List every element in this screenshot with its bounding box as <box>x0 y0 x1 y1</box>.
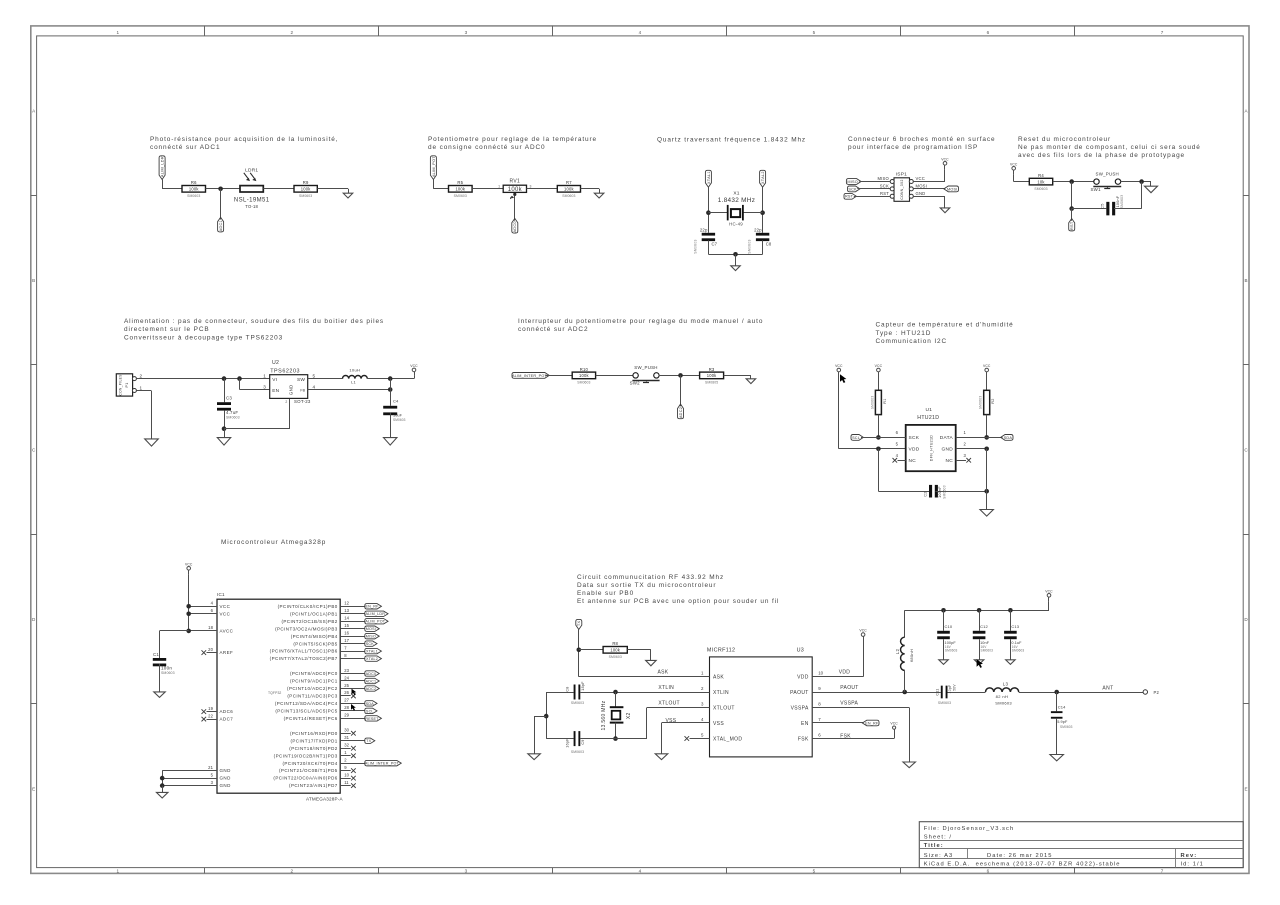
svg-text:GND: GND <box>941 447 953 453</box>
svg-text:VCC: VCC <box>220 611 231 616</box>
svg-text:(PCINT1/OC1A)PB1: (PCINT1/OC1A)PB1 <box>290 611 338 616</box>
svg-text:SCK: SCK <box>909 435 920 441</box>
svg-text:30: 30 <box>344 728 349 733</box>
svg-text:Photo-résistance pour acquisit: Photo-résistance pour acquisition de la … <box>150 136 338 143</box>
svg-text:16pF: 16pF <box>565 738 569 748</box>
svg-text:6: 6 <box>987 30 990 35</box>
svg-text:P1: P1 <box>125 383 129 388</box>
svg-text:FB: FB <box>300 389 305 393</box>
svg-text:1: 1 <box>117 30 120 35</box>
svg-text:2: 2 <box>291 868 294 873</box>
svg-text:de consigne connécté sur ADC0: de consigne connécté sur ADC0 <box>428 144 546 151</box>
svg-text:(PCINT10/ADC2)PC2: (PCINT10/ADC2)PC2 <box>287 686 338 691</box>
svg-text:5: 5 <box>313 374 316 379</box>
svg-text:RESET: RESET <box>365 717 379 721</box>
svg-text:VCC: VCC <box>859 629 867 633</box>
svg-text:MOSI: MOSI <box>947 187 958 191</box>
svg-text:SM0603: SM0603 <box>161 671 175 675</box>
svg-text:Enable sur PB0: Enable sur PB0 <box>577 590 634 597</box>
svg-text:100n: 100n <box>161 665 172 670</box>
svg-text:(PCINT9/ADC1)PC1: (PCINT9/ADC1)PC1 <box>290 679 338 684</box>
svg-text:NSL-19M51: NSL-19M51 <box>234 198 270 204</box>
svg-text:Reset du microcontroleur: Reset du microcontroleur <box>1018 136 1111 143</box>
svg-text:(PCINT6/XTAL1/TOSC1)PB6: (PCINT6/XTAL1/TOSC1)PB6 <box>270 649 338 654</box>
svg-text:SM0603: SM0603 <box>1120 195 1124 209</box>
svg-text:(PCINT8/ADC0)PC0: (PCINT8/ADC0)PC0 <box>290 671 338 676</box>
svg-text:KiCad E.D.A. eeschema (2013-0: KiCad E.D.A. eeschema (2013-07-07 BZR 40… <box>924 862 1121 868</box>
svg-text:SW_PUSH: SW_PUSH <box>1096 171 1119 176</box>
svg-text:R3: R3 <box>709 367 715 372</box>
svg-text:22p: 22p <box>754 227 762 232</box>
svg-text:CON_PILES: CON_PILES <box>119 374 123 396</box>
svg-text:100k: 100k <box>301 187 311 192</box>
svg-text:(PCINT0/CLK0/ICP1)PB0: (PCINT0/CLK0/ICP1)PB0 <box>278 604 338 609</box>
svg-text:20: 20 <box>208 647 213 652</box>
svg-text:VCC: VCC <box>835 364 843 368</box>
svg-text:TO-18: TO-18 <box>245 204 258 209</box>
svg-text:Circuit communucitation RF 433: Circuit communucitation RF 433.92 Mhz <box>577 574 724 581</box>
svg-text:VSS: VSS <box>713 721 724 727</box>
svg-text:C2: C2 <box>923 491 927 496</box>
svg-text:SM0603: SM0603 <box>571 701 584 705</box>
svg-text:VCC: VCC <box>941 157 949 161</box>
svg-text:U1: U1 <box>926 407 933 413</box>
svg-text:100k: 100k <box>610 648 620 653</box>
svg-text:GND: GND <box>220 783 232 788</box>
svg-text:Alimentation : pas de connecte: Alimentation : pas de connecteur, soudur… <box>124 318 384 325</box>
svg-text:(PCINT19/OC2B/INT1)PD3: (PCINT19/OC2B/INT1)PD3 <box>274 753 338 758</box>
svg-text:PAOUT: PAOUT <box>790 690 809 696</box>
svg-text:100k: 100k <box>564 187 574 192</box>
svg-text:7: 7 <box>1161 30 1164 35</box>
svg-text:31: 31 <box>344 735 349 740</box>
svg-text:3: 3 <box>465 30 468 35</box>
svg-text:HTU21D: HTU21D <box>917 415 939 421</box>
svg-text:RST: RST <box>880 191 889 196</box>
svg-text:R2: R2 <box>991 398 995 403</box>
svg-text:XTAL2: XTAL2 <box>761 171 765 184</box>
svg-text:(PCINT17/TXD)PD1: (PCINT17/TXD)PD1 <box>290 738 337 743</box>
svg-text:4: 4 <box>639 30 642 35</box>
svg-text:100k: 100k <box>508 187 523 193</box>
svg-text:(PCINT16/RXD)PD0: (PCINT16/RXD)PD0 <box>290 731 338 736</box>
svg-text:32: 32 <box>344 743 349 748</box>
svg-text:Quartz traversant fréquence 1.: Quartz traversant fréquence 1.8432 Mhz <box>657 136 806 143</box>
svg-text:15: 15 <box>344 623 349 628</box>
svg-text:13.560 MHz: 13.560 MHz <box>601 700 607 730</box>
svg-text:6: 6 <box>987 868 990 873</box>
svg-text:Rev:: Rev: <box>1181 853 1198 859</box>
svg-text:SM0603: SM0603 <box>938 701 951 705</box>
svg-text:VDD: VDD <box>797 675 809 681</box>
svg-text:SM0603: SM0603 <box>981 648 994 652</box>
svg-text:680nH: 680nH <box>909 649 914 662</box>
svg-text:R1: R1 <box>883 398 887 403</box>
svg-text:L1: L1 <box>351 379 356 384</box>
svg-text:SCK: SCK <box>366 642 375 646</box>
svg-text:25: 25 <box>344 683 349 688</box>
svg-text:SW_PUSH: SW_PUSH <box>634 365 657 370</box>
svg-text:100nF: 100nF <box>938 486 942 498</box>
svg-text:SM0603: SM0603 <box>979 396 983 410</box>
svg-text:4: 4 <box>313 384 316 389</box>
svg-text:SM0603: SM0603 <box>577 381 590 385</box>
svg-text:IC1: IC1 <box>217 592 225 597</box>
svg-text:7: 7 <box>1161 868 1164 873</box>
svg-text:5.9pF: 5.9pF <box>1057 720 1068 724</box>
svg-text:ALIM_INTER_POT: ALIM_INTER_POT <box>512 374 548 378</box>
svg-text:VCC: VCC <box>983 364 991 368</box>
svg-text:connécté sur ADC1: connécté sur ADC1 <box>150 144 220 151</box>
svg-text:XTLOUT: XTLOUT <box>713 705 735 711</box>
svg-text:SM0603: SM0603 <box>562 194 575 198</box>
svg-text:AVCC: AVCC <box>220 629 234 634</box>
svg-text:(PCINT5/SCK)PB5: (PCINT5/SCK)PB5 <box>293 641 337 646</box>
svg-text:SCL: SCL <box>366 709 374 713</box>
svg-text:XTAL2: XTAL2 <box>366 657 378 661</box>
svg-text:C12: C12 <box>980 624 988 629</box>
svg-text:XTAL1: XTAL1 <box>366 650 378 654</box>
svg-text:23: 23 <box>344 668 349 673</box>
svg-text:C13: C13 <box>1011 624 1019 629</box>
svg-text:Connecteur 6 broches monté en: Connecteur 6 broches monté en surface <box>848 136 995 143</box>
svg-text:VDD: VDD <box>909 447 920 453</box>
svg-text:VCC: VCC <box>1010 162 1018 166</box>
svg-text:C4: C4 <box>393 398 399 403</box>
svg-text:ALIM_POT: ALIM_POT <box>432 156 436 178</box>
svg-text:1: 1 <box>498 185 500 189</box>
svg-text:SM0603: SM0603 <box>609 655 622 659</box>
svg-text:MISO: MISO <box>877 176 889 181</box>
svg-text:EN_RF: EN_RF <box>365 605 379 609</box>
svg-text:MISO: MISO <box>366 635 376 639</box>
svg-text:ADC7: ADC7 <box>220 717 234 722</box>
svg-text:100k: 100k <box>189 187 199 192</box>
svg-text:C3: C3 <box>226 396 232 401</box>
svg-text:4.7uF: 4.7uF <box>226 410 238 415</box>
svg-text:L2: L2 <box>895 649 900 655</box>
svg-text:MOSI: MOSI <box>366 627 376 631</box>
svg-text:SM0603: SM0603 <box>1034 187 1047 191</box>
svg-text:SCK: SCK <box>880 183 889 188</box>
svg-text:10k: 10k <box>1037 179 1045 184</box>
svg-text:MISO: MISO <box>847 180 858 184</box>
svg-text:EN_RF: EN_RF <box>865 721 879 725</box>
svg-text:SM0805: SM0805 <box>705 381 718 385</box>
svg-text:GND: GND <box>220 768 232 773</box>
svg-text:FSK: FSK <box>798 736 809 742</box>
svg-text:ALIM_POT: ALIM_POT <box>365 620 385 624</box>
svg-text:XTLIN: XTLIN <box>713 690 729 696</box>
svg-text:2: 2 <box>285 400 287 404</box>
svg-text:R8: R8 <box>612 641 618 646</box>
svg-text:Size: A3: Size: A3 <box>924 853 954 859</box>
svg-text:ALIM_LDR: ALIM_LDR <box>365 612 385 616</box>
svg-text:50V: 50V <box>952 684 956 691</box>
svg-text:SM0603: SM0603 <box>299 194 312 198</box>
svg-text:U2: U2 <box>272 360 279 366</box>
svg-text:XTAL1: XTAL1 <box>707 171 711 184</box>
svg-text:R4: R4 <box>1038 173 1044 178</box>
svg-text:HC-49: HC-49 <box>729 221 743 226</box>
svg-text:22p: 22p <box>700 227 708 232</box>
svg-text:EN: EN <box>801 721 809 727</box>
svg-text:VCC: VCC <box>890 722 898 726</box>
svg-text:Title:: Title: <box>924 843 944 849</box>
svg-text:10: 10 <box>818 671 823 676</box>
svg-text:XTAL_MOD: XTAL_MOD <box>713 736 742 742</box>
svg-text:C9: C9 <box>581 739 585 744</box>
svg-text:SCL: SCL <box>852 436 860 440</box>
svg-text:21: 21 <box>208 765 213 770</box>
svg-text:SM0603: SM0603 <box>1012 648 1025 652</box>
svg-text:U3: U3 <box>797 647 805 653</box>
svg-text:SM0603: SM0603 <box>942 485 946 499</box>
svg-text:(PCINT12/SDA/ADC4)PC4: (PCINT12/SDA/ADC4)PC4 <box>275 701 338 706</box>
svg-text:11: 11 <box>344 780 349 785</box>
svg-text:Data sur sortie TX du microcon: Data sur sortie TX du microcontroleur <box>577 582 716 589</box>
svg-text:MICRF112: MICRF112 <box>707 647 735 653</box>
svg-text:VI: VI <box>272 377 277 383</box>
svg-text:10pF: 10pF <box>948 685 952 694</box>
svg-text:SDA: SDA <box>1004 436 1013 440</box>
svg-text:C8: C8 <box>565 686 569 691</box>
svg-text:(PCINT2/OC1B/SS)PB2: (PCINT2/OC1B/SS)PB2 <box>281 619 337 624</box>
svg-text:RST: RST <box>1070 221 1074 230</box>
svg-text:ADC1: ADC1 <box>366 679 377 683</box>
svg-text:24: 24 <box>344 675 349 680</box>
svg-text:ISP1: ISP1 <box>896 171 907 177</box>
svg-text:VSSPA: VSSPA <box>791 705 809 711</box>
svg-text:18: 18 <box>208 625 213 630</box>
svg-text:28: 28 <box>344 705 349 710</box>
svg-text:PAOUT: PAOUT <box>840 685 858 691</box>
svg-text:(PCINT4/MISO)PB4: (PCINT4/MISO)PB4 <box>291 634 338 639</box>
svg-text:(PCINT22/OC0A/AIN0)PD6: (PCINT22/OC0A/AIN0)PD6 <box>273 776 337 781</box>
svg-text:TPS62203: TPS62203 <box>270 369 300 375</box>
svg-text:R7: R7 <box>566 180 572 185</box>
svg-text:1: 1 <box>263 374 266 379</box>
svg-text:C11: C11 <box>935 688 939 695</box>
svg-text:VSSPA: VSSPA <box>840 701 858 707</box>
svg-text:B: B <box>1245 278 1248 283</box>
svg-text:SM0603: SM0603 <box>995 700 1012 705</box>
svg-text:MOSI: MOSI <box>916 183 928 188</box>
svg-text:C7: C7 <box>712 241 718 246</box>
svg-text:ADC0: ADC0 <box>513 221 517 232</box>
svg-text:(PCINT14/RESET)PC6: (PCINT14/RESET)PC6 <box>284 716 338 721</box>
svg-text:82 nH: 82 nH <box>996 694 1009 699</box>
svg-text:10uF: 10uF <box>393 414 403 418</box>
svg-text:Sheet: /: Sheet: / <box>924 835 952 841</box>
svg-text:100k: 100k <box>579 373 589 378</box>
svg-text:18pF: 18pF <box>581 681 585 691</box>
svg-text:VCC: VCC <box>875 364 883 368</box>
svg-text:Capteur de température et d'hu: Capteur de température et d'humidité <box>876 322 1014 329</box>
svg-text:directement sur le PCB: directement sur le PCB <box>124 326 210 333</box>
svg-text:C10: C10 <box>945 624 953 629</box>
svg-text:XTLOUT: XTLOUT <box>658 701 680 707</box>
svg-text:(PCINT3/OC2A/MOSI)PB3: (PCINT3/OC2A/MOSI)PB3 <box>275 626 338 631</box>
svg-text:VCC: VCC <box>220 604 231 609</box>
svg-text:3: 3 <box>530 185 532 189</box>
svg-text:12: 12 <box>344 601 349 606</box>
svg-text:SM0603: SM0603 <box>694 239 698 253</box>
svg-text:2: 2 <box>140 373 143 378</box>
svg-text:1: 1 <box>140 385 143 390</box>
svg-text:Communication I2C: Communication I2C <box>876 338 948 345</box>
svg-text:pour interface de programation: pour interface de programation ISP <box>848 144 978 151</box>
svg-text:SM0603: SM0603 <box>226 416 240 420</box>
svg-text:ATMEGA328P-A: ATMEGA328P-A <box>306 797 344 802</box>
svg-text:Type : HTU21D: Type : HTU21D <box>876 330 932 337</box>
svg-text:R6: R6 <box>191 180 197 185</box>
svg-text:17: 17 <box>344 638 349 643</box>
svg-text:R5: R5 <box>457 180 463 185</box>
svg-text:TX: TX <box>577 620 581 626</box>
svg-text:TQFP32: TQFP32 <box>268 691 281 695</box>
svg-text:(PCINT7/XTAL2/TOSC2)PB7: (PCINT7/XTAL2/TOSC2)PB7 <box>270 656 338 661</box>
svg-text:10uH: 10uH <box>349 367 360 372</box>
svg-text:DATA: DATA <box>940 435 954 441</box>
svg-text:VDD: VDD <box>839 669 851 675</box>
svg-text:TX: TX <box>366 739 371 743</box>
svg-text:R9: R9 <box>303 180 309 185</box>
svg-text:Id: 1/1: Id: 1/1 <box>1181 862 1204 868</box>
svg-text:14: 14 <box>344 616 349 621</box>
svg-text:22: 22 <box>208 713 213 718</box>
svg-text:ASK: ASK <box>658 669 669 675</box>
svg-text:CONN_3X2: CONN_3X2 <box>900 179 904 199</box>
svg-text:(PCINT21/OC0B/T1)PD5: (PCINT21/OC0B/T1)PD5 <box>279 768 338 773</box>
svg-text:SDA: SDA <box>366 702 375 706</box>
svg-text:ASK: ASK <box>713 675 724 681</box>
svg-text:(PCINT11/ADC3)PC3: (PCINT11/ADC3)PC3 <box>287 694 337 699</box>
svg-text:SM0603: SM0603 <box>748 239 752 253</box>
svg-text:C1: C1 <box>153 652 159 657</box>
svg-text:GND: GND <box>916 191 926 196</box>
svg-text:GND: GND <box>289 384 294 395</box>
svg-text:P2: P2 <box>1154 690 1160 695</box>
svg-text:(PCINT18/INT0)PD2: (PCINT18/INT0)PD2 <box>289 746 337 751</box>
svg-text:C8: C8 <box>766 241 772 246</box>
svg-text:ALIM_LDR: ALIM_LDR <box>161 156 165 177</box>
svg-text:1.8432 MHz: 1.8432 MHz <box>718 197 755 204</box>
svg-text:SM0603: SM0603 <box>454 194 467 198</box>
svg-text:ALIM_INTER_POT: ALIM_INTER_POT <box>365 762 400 766</box>
svg-text:2: 2 <box>291 30 294 35</box>
svg-text:VCC: VCC <box>916 176 925 181</box>
svg-text:3: 3 <box>465 868 468 873</box>
svg-text:X1: X1 <box>733 190 739 196</box>
svg-text:Potentiometre pour reglage de: Potentiometre pour reglage de la tempéra… <box>428 136 597 143</box>
svg-text:VCC: VCC <box>1045 589 1053 593</box>
svg-text:(PCINT23/AIN1)PD7: (PCINT23/AIN1)PD7 <box>289 783 338 788</box>
svg-text:VCC: VCC <box>410 364 418 368</box>
svg-text:SW2: SW2 <box>630 381 641 386</box>
svg-text:SOT-23: SOT-23 <box>294 399 311 404</box>
svg-text:C14: C14 <box>1058 704 1066 709</box>
svg-text:SW: SW <box>297 377 305 383</box>
svg-text:E: E <box>32 786 35 791</box>
svg-text:RV1: RV1 <box>510 179 521 185</box>
svg-text:ADC1: ADC1 <box>219 220 223 231</box>
svg-text:5: 5 <box>813 30 816 35</box>
svg-text:RST: RST <box>845 195 854 199</box>
svg-text:L3: L3 <box>1003 681 1009 686</box>
svg-text:29: 29 <box>344 713 349 718</box>
svg-text:ADC6: ADC6 <box>220 709 234 714</box>
svg-text:DFN_HTU21D: DFN_HTU21D <box>929 435 933 461</box>
svg-text:Microcontroleur Atmega328p: Microcontroleur Atmega328p <box>221 539 326 546</box>
svg-text:XTLIN: XTLIN <box>658 685 674 691</box>
svg-text:SM0603: SM0603 <box>571 750 584 754</box>
svg-text:EN: EN <box>272 388 279 394</box>
svg-text:16: 16 <box>344 630 349 635</box>
svg-text:SM0603: SM0603 <box>945 648 958 652</box>
svg-text:X2: X2 <box>626 712 632 719</box>
svg-text:SM0603: SM0603 <box>187 194 200 198</box>
svg-text:E: E <box>1245 786 1248 791</box>
svg-text:Interrupteur du potentiometre: Interrupteur du potentiometre pour regla… <box>518 318 763 325</box>
svg-text:SW1: SW1 <box>1091 187 1102 192</box>
svg-text:26: 26 <box>344 690 349 695</box>
svg-text:ADC0: ADC0 <box>366 672 377 676</box>
svg-text:Ne pas monter de composant, ce: Ne pas monter de composant, celui ci ser… <box>1018 144 1201 151</box>
svg-text:100k: 100k <box>455 187 465 192</box>
svg-text:4: 4 <box>639 868 642 873</box>
svg-text:R10: R10 <box>580 367 589 372</box>
svg-text:ANT: ANT <box>1102 686 1113 692</box>
svg-text:VSS: VSS <box>666 718 677 724</box>
svg-text:connécté sur ADC2: connécté sur ADC2 <box>518 326 588 333</box>
svg-text:Et antenne sur PCB avec une op: Et antenne sur PCB avec une option pour … <box>577 598 779 605</box>
svg-text:SM0603: SM0603 <box>870 396 874 410</box>
svg-text:SM0603: SM0603 <box>1060 725 1073 729</box>
svg-text:NC: NC <box>909 458 917 464</box>
svg-text:27: 27 <box>344 698 349 703</box>
svg-text:(PCINT13/SCL/ADC5)PC5: (PCINT13/SCL/ADC5)PC5 <box>275 708 337 713</box>
svg-text:C5: C5 <box>1101 203 1105 208</box>
svg-text:100k: 100k <box>707 373 717 378</box>
svg-text:avec des fils lors de la phase: avec des fils lors de la phase de protot… <box>1018 152 1185 159</box>
svg-text:SM0603: SM0603 <box>393 418 406 422</box>
svg-text:GND: GND <box>220 776 232 781</box>
svg-text:SCK: SCK <box>848 187 857 191</box>
svg-text:10: 10 <box>344 772 349 777</box>
svg-text:Converitsseur à decoupage type: Converitsseur à decoupage type TPS62203 <box>124 334 283 341</box>
svg-text:(PCINT20/XCK/T0)PD4: (PCINT20/XCK/T0)PD4 <box>282 761 337 766</box>
svg-text:ADC2: ADC2 <box>679 407 683 418</box>
svg-text:13: 13 <box>344 608 349 613</box>
svg-text:File: DjoroSensor_V3.sch: File: DjoroSensor_V3.sch <box>924 826 1014 832</box>
svg-text:AREF: AREF <box>220 650 234 655</box>
svg-text:VCC: VCC <box>185 562 193 566</box>
svg-text:Date: 26 mar 2015: Date: 26 mar 2015 <box>987 853 1052 859</box>
svg-text:NC: NC <box>945 458 953 464</box>
svg-text:19: 19 <box>208 706 213 711</box>
svg-text:5: 5 <box>813 868 816 873</box>
svg-text:ADC2: ADC2 <box>366 687 377 691</box>
svg-text:B: B <box>32 278 35 283</box>
svg-text:LDR1: LDR1 <box>245 168 258 174</box>
svg-text:3: 3 <box>263 384 266 389</box>
svg-text:1: 1 <box>117 868 120 873</box>
